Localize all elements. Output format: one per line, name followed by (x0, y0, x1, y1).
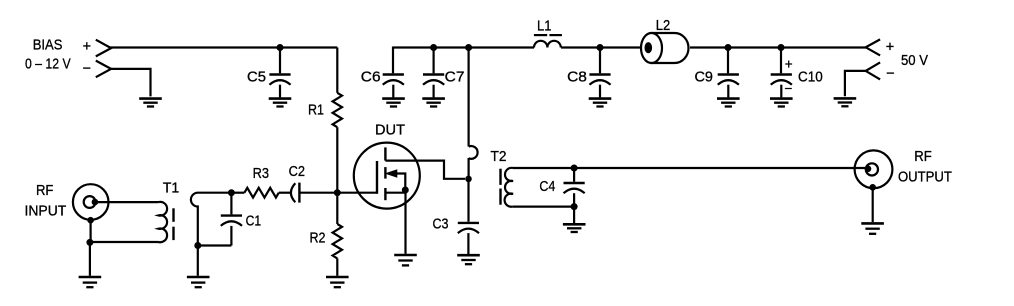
svg-text:C4: C4 (539, 179, 555, 195)
wire: T2 secondary top to RF OUTPUT (513, 167, 866, 169)
capacitor C3 (458, 222, 479, 224)
svg-text:C5: C5 (247, 69, 266, 85)
svg-text:R2: R2 (310, 230, 326, 246)
svg-text:+: + (83, 39, 91, 55)
wire: gate node to R2 (336, 193, 338, 224)
wire: C6 top lead (392, 47, 394, 74)
wire: C8 bottom lead (599, 85, 601, 98)
wire: 50V rail segment 2 (561, 46, 641, 48)
ground (RF OUTPUT) (861, 222, 884, 225)
wire: C10 bottom lead (780, 85, 782, 98)
connector: RF OUTPUT jack inner (866, 163, 878, 175)
wire: C4 bottom lead (573, 193, 575, 206)
wire: node to R3 (231, 192, 244, 194)
node: C4 bottom (571, 203, 578, 210)
ground (C10) (770, 97, 793, 100)
ground (source) (394, 254, 417, 257)
wire: R3 to C2 (279, 192, 292, 194)
svg-text:C8: C8 (567, 69, 587, 85)
terminal: 50V + chevron (866, 39, 880, 55)
wire: RF OUTPUT shell to ground (872, 187, 874, 222)
connector: RF INPUT center pin (92, 199, 99, 206)
node: input shield junction (86, 239, 93, 246)
wire: source to ground (404, 193, 406, 254)
wire: RF INPUT shell down (89, 220, 91, 242)
transistor DUT body arrow head (386, 170, 397, 177)
terminal: BIAS − input chevron (96, 61, 111, 78)
wire: T1 secondary bottom to ground (197, 246, 199, 276)
svg-text:R1: R1 (308, 103, 324, 119)
svg-text:C9: C9 (694, 69, 713, 85)
inductor L1 core dash 1 (534, 34, 547, 36)
wire: drain lead (385, 161, 465, 179)
inductor L2 (ferrite bead body) (652, 33, 689, 63)
wire: 50V − to ground (845, 71, 866, 96)
connector: RF OUTPUT jack outer (855, 150, 893, 188)
svg-text:C6: C6 (361, 69, 381, 85)
wire: C10 top lead (780, 48, 782, 74)
terminal: BIAS + input chevron (96, 40, 111, 57)
wire: drain branch vertical (lower) (468, 158, 470, 179)
capacitor C7 (423, 73, 444, 75)
wire: C3 bottom lead (467, 233, 469, 254)
svg-text:INPUT: INPUT (25, 204, 67, 220)
transistor DUT (MOSFET) circle (354, 143, 420, 209)
capacitor C2 curved plate (291, 183, 295, 202)
node: drain branch on rail (465, 44, 472, 51)
ground (C4) (563, 223, 586, 226)
wire: BIAS − to ground (110, 69, 151, 97)
wire: rail to R1 (336, 48, 338, 93)
node: RF OUTPUT shell (869, 184, 876, 191)
svg-text:C7: C7 (445, 69, 465, 85)
ground (C6) (382, 97, 405, 100)
wire: BIAS + rail (110, 46, 337, 48)
svg-text:+: + (785, 57, 793, 72)
wire: R2 to ground (336, 258, 338, 275)
inductor L1 (534, 41, 561, 48)
ground (T1/C1) (187, 276, 210, 279)
svg-text:−: − (785, 81, 793, 96)
transistor DUT channel dash 3 (source) (384, 188, 386, 200)
transformer T2 core dash 1 (499, 169, 501, 185)
svg-text:C1: C1 (246, 213, 262, 229)
ground (50V −) (834, 97, 857, 100)
node: C9 top (725, 44, 732, 51)
ground (R2) (326, 276, 349, 279)
node: C1 top / gate line (228, 189, 235, 196)
wire: T2 secondary bottom to C4 (513, 206, 574, 208)
connector: RF INPUT jack outer (73, 184, 109, 220)
inductor L1 core dash 2 (549, 34, 562, 36)
transformer T1 core dash 1 (172, 208, 174, 222)
transformer T2 primary loop (469, 146, 478, 159)
wire: C4 bottom to ground (573, 207, 575, 223)
svg-text:DUT: DUT (375, 123, 405, 139)
ground (RF INPUT) (79, 276, 102, 279)
inductor L2 (bead left face) (641, 33, 662, 63)
wire: C9 bottom lead (727, 85, 729, 98)
svg-text:R3: R3 (253, 166, 269, 182)
wire: C1 top lead (230, 193, 232, 215)
ground (C3) (457, 254, 480, 257)
svg-text:L1: L1 (537, 18, 552, 34)
transistor DUT source lead (385, 192, 405, 194)
svg-text:OUTPUT: OUTPUT (898, 169, 952, 185)
svg-text:RF: RF (914, 149, 932, 165)
wire: C8 top lead (599, 48, 601, 74)
wire: 50V rail segment 1 (393, 46, 534, 48)
node: T1 secondary bottom (194, 242, 201, 249)
ground (C9) (717, 97, 740, 100)
capacitor C2 flat plate (298, 183, 300, 203)
wire: shield junction to T1 bottom (90, 241, 159, 243)
wire: T1 secondary bottom to C1 (198, 244, 232, 246)
wire: drain branch vertical (upper) (468, 48, 470, 147)
wire: RF INPUT pin to T1 (95, 201, 159, 203)
node: C7 top (430, 44, 437, 51)
wire: C1 bottom lead (230, 226, 232, 246)
capacitor C6 (383, 73, 404, 75)
capacitor C10 (771, 73, 792, 75)
node: source junction (402, 187, 409, 194)
capacitor C8 (589, 73, 610, 75)
node: C4 top (571, 165, 578, 172)
connector: RF OUTPUT center pin (865, 166, 872, 173)
transformer T1 core dash 2 (172, 227, 174, 240)
resistor R1 (333, 93, 342, 127)
transformer T1 primary winding (159, 202, 168, 242)
transformer T2 core dash 2 (499, 189, 501, 205)
ground (BIAS −) (139, 97, 162, 100)
inductor L2 (wire through bead) (645, 42, 653, 53)
svg-text:50 V: 50 V (901, 53, 928, 69)
svg-text:BIAS: BIAS (33, 38, 63, 54)
transistor DUT gate bar (376, 161, 378, 194)
node: C5 top (277, 44, 284, 51)
node: C8 top (597, 44, 604, 51)
svg-text:+: + (886, 40, 894, 56)
wire: drain node to C3 (467, 179, 469, 222)
wire: R1 to gate node (336, 127, 338, 193)
svg-text:L2: L2 (656, 18, 671, 34)
wire: C5 top lead (279, 48, 281, 74)
wire: gate lead (337, 192, 377, 194)
node: gate junction (334, 189, 341, 196)
svg-text:C3: C3 (433, 217, 449, 233)
svg-text:T2: T2 (491, 149, 507, 165)
transformer T1 secondary (wire with loop) (191, 193, 231, 246)
wire: C2 to gate node (299, 192, 337, 194)
transistor DUT body arrow line (395, 174, 405, 193)
capacitor C1 (221, 214, 242, 216)
wire: C9 top lead (727, 48, 729, 74)
resistor R2 (333, 224, 342, 258)
transistor DUT channel dash 1 (drain) (384, 147, 386, 160)
node: C10 top (778, 44, 785, 51)
svg-text:C2: C2 (289, 164, 305, 180)
capacitor C9 (718, 73, 739, 75)
svg-text:RF: RF (36, 183, 54, 199)
capacitor C4 (564, 182, 585, 184)
terminal: 50V − chevron (866, 62, 880, 79)
ground (C5) (269, 97, 292, 100)
ground (C8) (589, 97, 612, 100)
svg-text:−: − (886, 66, 894, 82)
wire: C4 top lead (573, 168, 575, 182)
wire: C7 top lead (433, 48, 435, 74)
svg-text:−: − (83, 61, 91, 77)
capacitor C5 (269, 73, 290, 75)
ground (C7) (422, 97, 445, 100)
wire: C7 bottom lead (433, 85, 435, 98)
connector: RF INPUT jack inner (84, 196, 96, 208)
node: drain junction (465, 176, 472, 183)
wire: 50V rail segment 3 (690, 46, 866, 48)
node: RF INPUT shell (87, 217, 94, 224)
wire: C5 bottom lead (279, 85, 281, 98)
svg-text:0 – 12 V: 0 – 12 V (25, 57, 71, 73)
transistor DUT channel dash 2 (body) (384, 167, 386, 179)
wire: shield junction to ground (89, 242, 91, 275)
wire: C6 bottom lead (392, 85, 394, 98)
transformer T2 secondary winding (505, 168, 513, 207)
resistor R3 (244, 188, 278, 198)
svg-text:T1: T1 (163, 181, 180, 197)
svg-text:C10: C10 (798, 69, 823, 85)
